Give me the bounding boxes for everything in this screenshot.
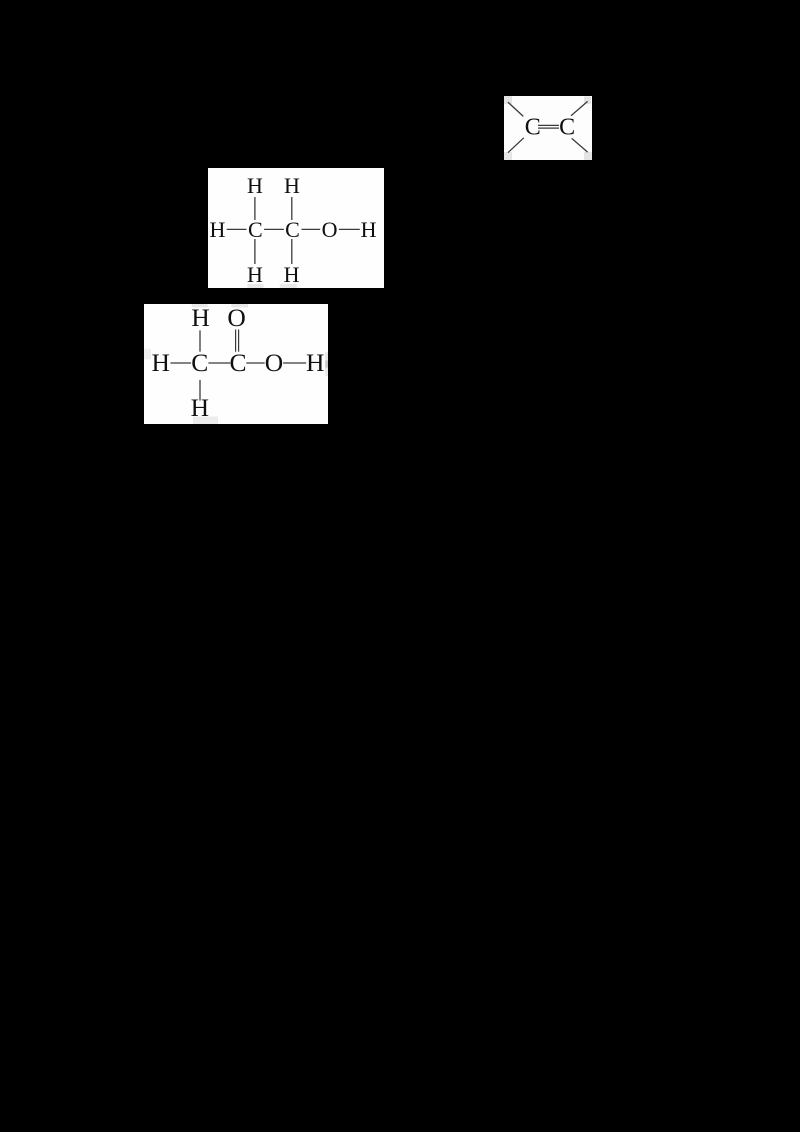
erased mark above top O <box>232 304 249 308</box>
svg-text:C: C <box>525 115 541 141</box>
erased-atom mark bottom-left <box>504 152 512 160</box>
bond C1-Htop <box>254 197 256 220</box>
svg-text:H: H <box>247 173 263 198</box>
bond C1-Hbottom <box>199 380 201 401</box>
svg-text:H: H <box>209 217 225 242</box>
svg-text:H: H <box>247 262 263 287</box>
white panel: ethene C=C fragment <box>504 96 592 160</box>
double bond C1=C2 <box>538 124 559 126</box>
white panel: acetic acid structural formula <box>144 304 328 424</box>
bond C1-Htop <box>199 330 201 351</box>
bond C1 upper-left substituent <box>508 102 523 116</box>
svg-text:C: C <box>248 217 263 242</box>
erased-atom mark bottom-right <box>584 152 592 160</box>
erased mark above top H <box>192 304 208 307</box>
bond H-C1 <box>227 228 247 230</box>
erased mark right edge <box>325 352 328 360</box>
svg-text:O: O <box>227 304 245 332</box>
svg-text:O: O <box>322 217 338 242</box>
erased-atom mark top-left <box>504 96 512 104</box>
svg-text:H: H <box>191 393 209 422</box>
svg-text:C: C <box>191 348 208 377</box>
erased mark below bottom H <box>193 417 218 425</box>
white panel: ethanol structural formula <box>208 168 384 288</box>
bond C1-C2 <box>208 362 230 364</box>
bond C1 lower-left substituent <box>508 138 524 153</box>
bond C2-Hbottom <box>291 239 293 264</box>
bond C1-Hbottom <box>254 239 256 264</box>
bond O-H <box>283 362 306 364</box>
bond C2-O <box>302 228 321 230</box>
svg-text:H: H <box>284 173 300 198</box>
erased mark below bottom H2 <box>280 284 297 288</box>
erased mark below bottom H1 <box>247 284 263 288</box>
bond C1-C2 <box>264 228 284 230</box>
svg-text:H: H <box>306 348 324 377</box>
svg-text:H: H <box>361 217 377 242</box>
svg-text:C: C <box>285 217 300 242</box>
erased mark left edge <box>144 349 151 359</box>
svg-text:H: H <box>284 262 300 287</box>
svg-text:C: C <box>559 115 575 141</box>
bond O-H <box>339 228 360 230</box>
bond C2-O <box>246 362 264 364</box>
double bond C2=O <box>235 330 237 352</box>
svg-text:H: H <box>151 348 169 377</box>
svg-text:H: H <box>191 304 209 332</box>
svg-text:O: O <box>265 348 283 377</box>
svg-text:C: C <box>229 348 246 377</box>
bond C2 lower-right substituent <box>572 138 588 152</box>
bond H-C1 <box>170 362 191 364</box>
bond C2 upper-right substituent <box>571 101 588 115</box>
bond C2-Htop <box>291 197 293 220</box>
erased-atom mark top-right <box>584 97 591 105</box>
